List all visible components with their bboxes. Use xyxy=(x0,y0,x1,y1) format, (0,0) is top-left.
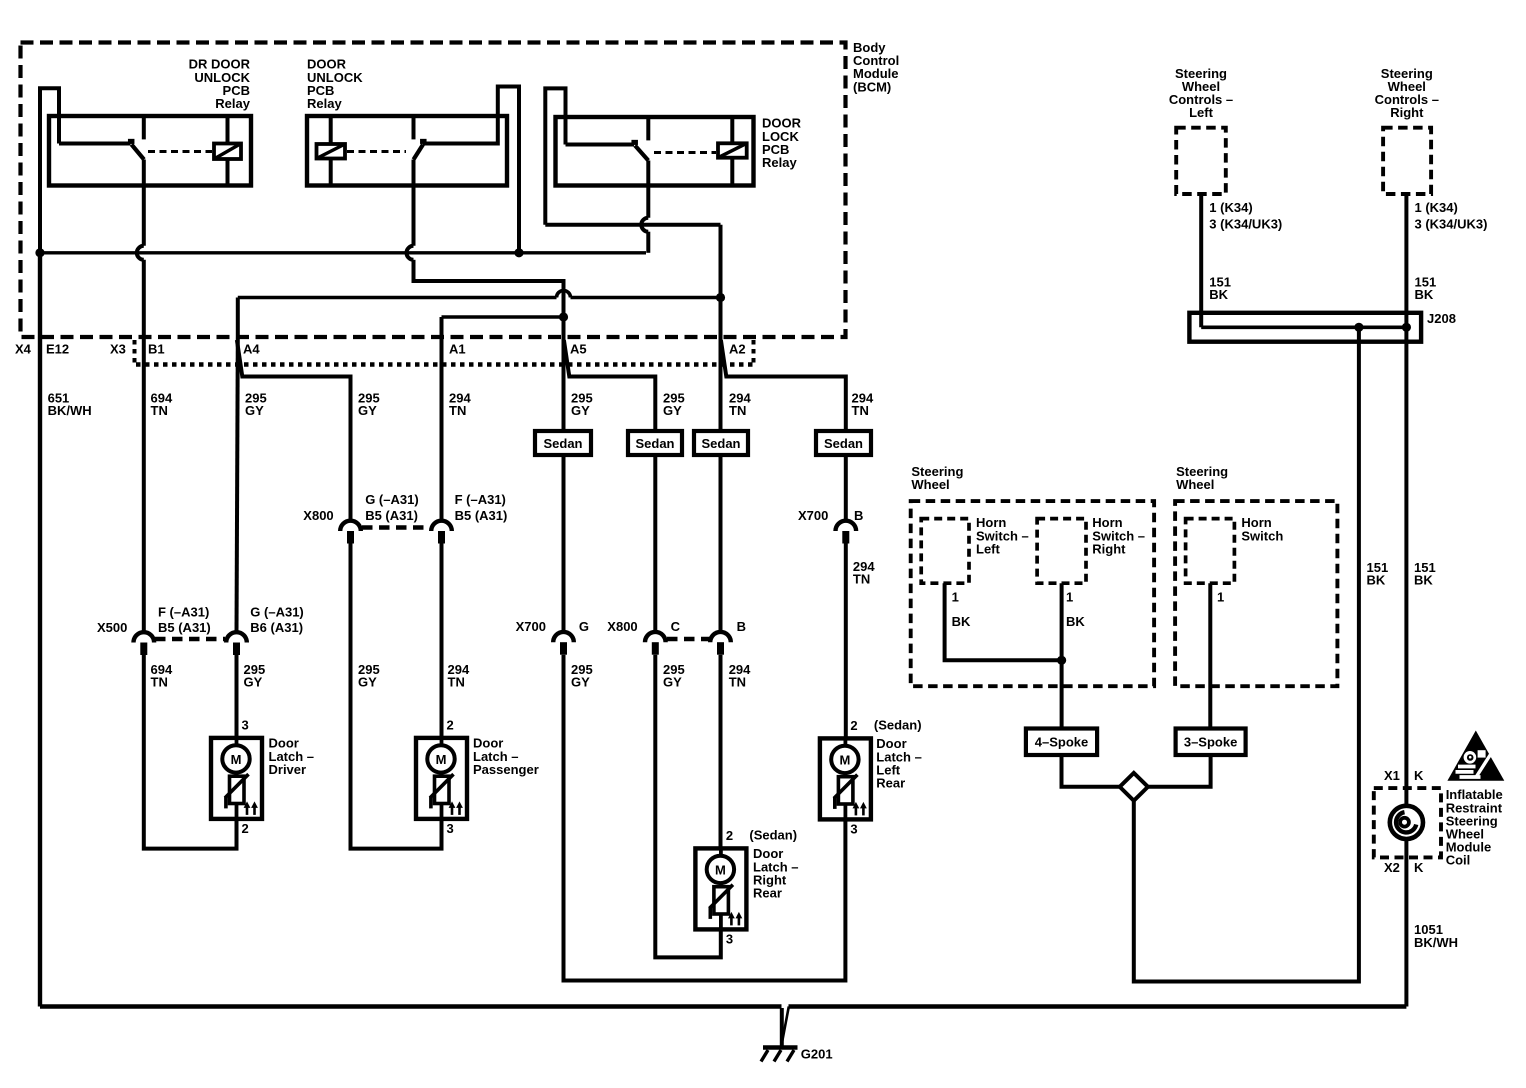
wire 694 TN B1 to X500 xyxy=(142,337,146,633)
relay K3 coil xyxy=(718,143,747,157)
wire 294 TN B down to Door Latch Right Rear pin 2 xyxy=(719,655,723,849)
svg-text:B5 (A31): B5 (A31) xyxy=(365,508,418,523)
svg-text:X2: X2 xyxy=(1384,860,1400,875)
option box 3-Spoke xyxy=(1176,729,1246,756)
splice pack J208 box xyxy=(1189,313,1421,342)
wire: A4 feed horizontal y=297.5 xyxy=(238,296,557,300)
svg-text:A1: A1 xyxy=(449,342,466,357)
airbag warning triangle xyxy=(1447,731,1504,781)
X500 dashed link xyxy=(155,637,225,642)
svg-text:BK: BK xyxy=(952,614,971,629)
svg-text:GY: GY xyxy=(663,675,682,690)
connector X3 right tick xyxy=(752,340,756,366)
wire 294 TN A1 to X800 xyxy=(440,337,444,521)
wire 295 GY A4 to X500 xyxy=(237,337,238,633)
junction dot J208 tap xyxy=(1354,323,1363,332)
connector X3 left tick xyxy=(133,340,137,366)
wire: K1 common feed from 651 net xyxy=(40,88,59,250)
junction dot 651 wire xyxy=(35,248,44,257)
wire: relay K3 output down to 651 horizontal xyxy=(646,161,650,218)
svg-text:M: M xyxy=(231,752,242,767)
svg-text:Rear: Rear xyxy=(876,776,905,791)
svg-text:BK/WH: BK/WH xyxy=(48,403,92,418)
svg-text:C: C xyxy=(671,619,681,634)
svg-text:M: M xyxy=(436,752,447,767)
svg-text:G (–A31): G (–A31) xyxy=(365,492,418,507)
wire horn 3-spoke xyxy=(1208,583,1212,728)
svg-text:TN: TN xyxy=(853,572,870,587)
svg-text:TN: TN xyxy=(448,675,465,690)
Sedan option box 1 xyxy=(535,431,591,455)
ground lead xyxy=(780,1008,784,1046)
svg-text:X700: X700 xyxy=(798,508,828,523)
svg-text:3: 3 xyxy=(447,821,454,836)
option box 4-Spoke xyxy=(1026,729,1097,756)
svg-text:G (–A31): G (–A31) xyxy=(250,605,303,620)
X800 dashed link xyxy=(362,525,430,530)
svg-text:(Sedan): (Sedan) xyxy=(874,717,922,732)
wire horn right xyxy=(1060,583,1064,728)
svg-text:BK/WH: BK/WH xyxy=(1414,935,1458,950)
svg-text:4–Spoke: 4–Spoke xyxy=(1035,735,1088,750)
svg-text:X800: X800 xyxy=(607,619,637,634)
svg-text:2: 2 xyxy=(242,821,249,836)
connector X800 pin C (wire 655.3) xyxy=(645,632,666,642)
svg-text:E12: E12 xyxy=(46,342,69,357)
svg-text:3 (K34/UK3): 3 (K34/UK3) xyxy=(1415,217,1488,232)
wire 3-spoke to diamond xyxy=(1148,755,1211,787)
junction dot J208 right xyxy=(1402,323,1411,332)
svg-text:Sedan: Sedan xyxy=(543,436,582,451)
Sedan option box 4 xyxy=(816,431,871,455)
svg-text:K: K xyxy=(1414,768,1424,783)
svg-text:Sedan: Sedan xyxy=(701,436,740,451)
svg-text:Switch: Switch xyxy=(1241,528,1283,543)
svg-text:TN: TN xyxy=(449,403,466,418)
relay K2 switch: common feed line going up/right to 651 net xyxy=(423,87,519,253)
connector X700 pin G (wire 563.5) xyxy=(553,632,574,642)
relay K3 fixed contact stub xyxy=(646,117,650,140)
svg-text:3: 3 xyxy=(850,822,857,837)
svg-text:G: G xyxy=(579,619,589,634)
svg-text:B1: B1 xyxy=(148,342,165,357)
Sedan option box 3 xyxy=(694,431,748,455)
svg-text:Left: Left xyxy=(976,541,1001,556)
svg-text:X800: X800 xyxy=(303,508,333,523)
wire 294 TN A2 to Sedan xyxy=(719,337,723,431)
clockspring spiral xyxy=(1390,806,1423,839)
svg-text:3 (K34/UK3): 3 (K34/UK3) xyxy=(1209,217,1282,232)
svg-text:M: M xyxy=(715,862,726,877)
Body Control Module (BCM) dashed outline box xyxy=(21,43,846,338)
svg-text:Left: Left xyxy=(1189,105,1214,120)
svg-text:Relay: Relay xyxy=(215,96,250,111)
wire: A1 column down xyxy=(440,317,444,337)
wire 294 TN below Sedan3 to connector B xyxy=(719,455,723,631)
relay K2 switch arm xyxy=(414,145,424,160)
wire: main ground bus bottom xyxy=(40,1004,782,1008)
svg-text:G201: G201 xyxy=(801,1046,833,1061)
junction dot A4 branch on A2 column xyxy=(716,293,725,302)
relay K2 coil link dashed xyxy=(347,150,406,153)
svg-text:2: 2 xyxy=(726,828,733,843)
relay K1 switch arm xyxy=(132,145,145,160)
Sedan option box 2 xyxy=(628,431,682,455)
wire 151 BK left xyxy=(1199,194,1203,327)
junction dot horn wires xyxy=(1057,656,1066,665)
wire horn left xyxy=(945,583,1062,660)
svg-text:(BCM): (BCM) xyxy=(853,79,891,94)
horn switch right dashed box xyxy=(1037,519,1086,584)
svg-text:BK: BK xyxy=(1415,287,1434,302)
wire: K3 fixed contact to A2 chain (top stub) xyxy=(545,88,565,224)
svg-text:GY: GY xyxy=(244,675,263,690)
svg-text:BK: BK xyxy=(1414,573,1433,588)
J208 internal bus xyxy=(1201,325,1406,329)
svg-text:B: B xyxy=(854,508,863,523)
wire: relay K1 output down to B1 xyxy=(142,160,146,246)
wire 151 BK from J208 down to clockspring xyxy=(1404,342,1408,806)
steering wheel 4-spoke dashed box xyxy=(911,501,1154,686)
wire: 651 net long horizontal xyxy=(40,251,646,254)
relay K2 coil xyxy=(317,144,346,159)
svg-text:Rear: Rear xyxy=(753,886,782,901)
wire 295 GY A5 to Sedan xyxy=(562,337,566,431)
svg-text:X3: X3 xyxy=(110,342,126,357)
dashed link C-B xyxy=(667,637,710,642)
steering wheel controls left dashed box xyxy=(1176,128,1226,194)
relay K2 DOOR UNLOCK PCB Relay: outline xyxy=(307,116,507,186)
inflatable restraint coil dashed box xyxy=(1374,788,1441,857)
wire 295 GY below Sedan1 to X700 G xyxy=(562,455,566,631)
svg-text:1 (K34): 1 (K34) xyxy=(1209,200,1252,215)
svg-text:GY: GY xyxy=(571,675,590,690)
connector X800 pin F (wire 441.5) xyxy=(431,521,452,531)
door latch left rear xyxy=(820,738,871,819)
svg-text:TN: TN xyxy=(729,403,746,418)
wire 651 BK/WH (left) down to bottom xyxy=(38,253,42,1007)
svg-text:Sedan: Sedan xyxy=(824,436,863,451)
wire 295 GY X800-C down to right-rear loop xyxy=(655,655,721,958)
svg-text:1: 1 xyxy=(952,590,959,605)
merge diamond xyxy=(1120,773,1148,801)
wire 4-spoke to diamond xyxy=(1062,755,1120,787)
relay K1 coil link dashed xyxy=(148,150,212,153)
svg-text:TN: TN xyxy=(852,403,869,418)
svg-text:GY: GY xyxy=(358,403,377,418)
svg-text:B5 (A31): B5 (A31) xyxy=(455,508,508,523)
svg-text:Right: Right xyxy=(1092,541,1126,556)
wire 151 BK right xyxy=(1404,194,1408,342)
svg-text:M: M xyxy=(839,752,850,767)
svg-text:F (–A31): F (–A31) xyxy=(158,605,209,620)
svg-text:1: 1 xyxy=(1217,590,1224,605)
relay K2 fixed contact stub xyxy=(412,116,416,139)
svg-text:J208: J208 xyxy=(1427,311,1456,326)
svg-text:3–Spoke: 3–Spoke xyxy=(1184,735,1237,750)
svg-text:(Sedan): (Sedan) xyxy=(749,827,797,842)
door latch right rear xyxy=(695,848,746,929)
wire 294 TN to Door Latch Passenger pin 2 xyxy=(440,544,444,739)
wire 694 TN to Door Latch Driver pin 2 loop xyxy=(144,655,237,849)
svg-text:Sedan: Sedan xyxy=(635,436,674,451)
svg-text:1: 1 xyxy=(1066,590,1073,605)
svg-text:Driver: Driver xyxy=(269,762,307,777)
wire branch A2 to right 294 TN column xyxy=(721,340,846,431)
svg-text:GY: GY xyxy=(358,675,377,690)
horn switch left dashed box xyxy=(921,519,969,584)
svg-text:B6 (A31): B6 (A31) xyxy=(250,620,303,635)
relay K3 DOOR LOCK PCB Relay: outline xyxy=(556,117,754,186)
svg-text:X500: X500 xyxy=(97,620,127,635)
svg-text:2: 2 xyxy=(447,717,454,732)
connector X700 pin B (wire 845.8) xyxy=(836,521,857,531)
svg-text:GY: GY xyxy=(245,403,264,418)
svg-text:Wheel: Wheel xyxy=(911,477,949,492)
wire 294 TN X700-B to Door Latch Left Rear xyxy=(844,544,848,739)
relay K3 switch common line and pivot xyxy=(566,143,635,147)
svg-text:TN: TN xyxy=(729,675,746,690)
svg-text:2: 2 xyxy=(850,718,857,733)
svg-text:X4: X4 xyxy=(15,342,32,357)
svg-text:GY: GY xyxy=(663,403,682,418)
svg-text:F (–A31): F (–A31) xyxy=(455,492,506,507)
steering wheel controls right dashed box xyxy=(1383,128,1431,194)
svg-text:3: 3 xyxy=(242,717,249,732)
relay K1 switch common line and pivot xyxy=(59,142,131,146)
wire: A4 column down xyxy=(236,298,240,338)
svg-text:BK: BK xyxy=(1066,614,1085,629)
wire 294 TN below Sedan4 to X700 B xyxy=(844,455,848,521)
ground G201 symbol xyxy=(763,1045,798,1049)
wire: A1 feed horizontal y=317 xyxy=(442,315,564,319)
svg-text:K: K xyxy=(1414,860,1424,875)
wire 295 GY X700-G down to left-rear loop xyxy=(564,655,846,981)
svg-text:Relay: Relay xyxy=(307,96,342,111)
svg-text:Wheel: Wheel xyxy=(1176,477,1214,492)
door latch driver xyxy=(211,738,262,819)
svg-text:BK: BK xyxy=(1367,573,1386,588)
wire branch A5 to second 295 GY column xyxy=(564,340,655,431)
svg-text:Right: Right xyxy=(1390,105,1424,120)
wire 295 GY to Door Latch Passenger pin 3 loop xyxy=(351,544,442,849)
svg-text:Coil: Coil xyxy=(1446,853,1471,868)
svg-text:A4: A4 xyxy=(243,342,260,357)
svg-text:1 (K34): 1 (K34) xyxy=(1415,200,1458,215)
svg-text:TN: TN xyxy=(151,675,168,690)
svg-text:X1: X1 xyxy=(1384,768,1400,783)
svg-text:B5 (A31): B5 (A31) xyxy=(158,620,211,635)
wire: A2 chain horizontal y=224.7 xyxy=(545,223,720,227)
svg-text:Passenger: Passenger xyxy=(473,762,539,777)
wire through coil xyxy=(1404,839,1408,1007)
relay K3 switch arm xyxy=(635,146,648,161)
horn switch dashed box xyxy=(1186,519,1235,584)
svg-text:BK: BK xyxy=(1209,287,1228,302)
door latch passenger xyxy=(416,738,467,819)
svg-text:TN: TN xyxy=(151,403,168,418)
wire: relay K2 output down, east to A5 column xyxy=(412,160,416,246)
svg-text:3: 3 xyxy=(726,932,733,947)
wire: A2 column down xyxy=(719,225,723,337)
wire 295 GY below Sedan2 to X800 C xyxy=(653,455,657,631)
junction dot relay K2 common xyxy=(514,248,523,257)
svg-text:Relay: Relay xyxy=(762,155,797,170)
relay K1 DR DOOR UNLOCK PCB Relay: outline xyxy=(49,116,251,186)
relay K3 coil link dashed xyxy=(654,151,716,154)
connector X3 dotted boundary line xyxy=(136,362,754,367)
steering wheel 3-spoke dashed box xyxy=(1175,501,1337,686)
svg-text:X700: X700 xyxy=(516,619,546,634)
connector X500 pin G (wire 236.5) xyxy=(226,632,247,642)
connector X500 pin F (wire 143.8) xyxy=(134,632,155,642)
svg-text:GY: GY xyxy=(571,403,590,418)
wire branch A4 to second 295 GY column xyxy=(237,340,351,521)
junction dot A1 feed on A5 column xyxy=(559,312,568,321)
svg-text:A2: A2 xyxy=(729,342,746,357)
wire 151 BK from J208 to horn diamond xyxy=(1134,327,1359,981)
connector pin B (wire 720.5) xyxy=(710,632,731,642)
svg-text:A5: A5 xyxy=(570,342,587,357)
svg-text:B: B xyxy=(737,619,746,634)
connector X800 pin G (wire 350.5) xyxy=(340,521,361,531)
wire 295 GY to Door Latch Driver pin 3 xyxy=(235,655,239,738)
relay K1 fixed contact stub xyxy=(142,116,146,139)
relay K1 coil xyxy=(214,144,241,160)
